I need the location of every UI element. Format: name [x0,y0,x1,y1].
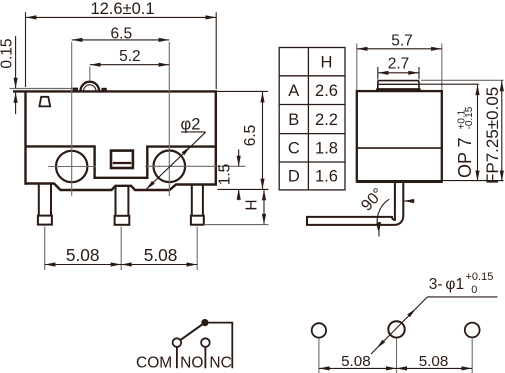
dimension 5.08 / 5.08 front [45,264,198,266]
svg-text:5.08: 5.08 [66,245,100,265]
OP reference line [420,83,479,85]
NC wire [205,323,232,369]
svg-text:2.2: 2.2 [315,111,338,129]
centerline right hole horizontal (1.5 ext) [145,165,246,167]
dimension 1.5 right [238,150,240,167]
svg-text:2.7: 2.7 [388,56,410,73]
small block right of hump [101,88,106,92]
COM terminal circle [173,338,182,347]
FP reference line [421,79,504,81]
plunger hump (front view) [81,82,100,91]
svg-text:5.08: 5.08 [144,245,178,265]
dimension 5.2 [90,64,170,66]
dimension OP 7 [477,84,479,181]
svg-text:NC: NC [209,355,231,372]
svg-text:φ2: φ2 [181,115,201,133]
svg-text:H: H [244,199,261,210]
svg-text:OP 7: OP 7 [455,137,475,178]
svg-text:0.15: 0.15 [0,39,16,69]
hole extension lines [318,338,320,373]
dimension 0.15 left [15,36,17,88]
table grid [279,48,345,190]
NO terminal circle [201,338,210,347]
table text [288,53,338,185]
left pin [38,184,52,225]
bottom pin extension lines [44,227,46,271]
step / channel line inside body [26,146,216,177]
lever (bent pin) [307,182,403,225]
bottom reference line right [443,180,504,182]
svg-text:A: A [288,82,299,100]
button flange [376,89,421,91]
svg-text:2.6: 2.6 [315,82,338,100]
svg-text:5.08: 5.08 [419,353,449,370]
svg-text:D: D [288,168,300,186]
dimension 5.7 [356,44,358,91]
window detail center [111,151,133,168]
dimension 12.6±0.1 [26,12,217,89]
svg-text:6.5: 6.5 [111,25,133,42]
svg-text:+0.15: +0.15 [466,271,494,283]
cover seam line (0.15 offset) [10,88,74,90]
svg-text:φ1: φ1 [445,276,464,293]
left mounting hole [56,151,87,182]
small block left of hump [73,88,78,92]
hole left [312,323,326,337]
90 degree arc [377,199,389,231]
side view seam line [357,147,442,149]
svg-text:12.6±0.1: 12.6±0.1 [90,0,154,18]
svg-text:0: 0 [471,284,477,296]
dimension 6.5 right vertical [262,92,264,190]
svg-text:NO: NO [180,355,203,372]
svg-text:1.5: 1.5 [217,164,234,186]
COM lead [176,347,178,368]
centerline right hole vertical (6.5/5.2 ext) [168,42,170,196]
dimension 5.08 / 5.08 bottom right [319,367,472,369]
hole middle [388,321,404,337]
svg-text:5.7: 5.7 [391,32,413,49]
centerline left hole vertical (6.5 ext) [71,42,73,196]
svg-text:1.8: 1.8 [315,140,338,158]
switch arm [180,323,205,341]
svg-text:6.5: 6.5 [242,125,259,147]
NO lead [204,347,206,368]
dimension 2.7 [377,67,379,80]
right mounting hole [154,151,186,183]
front view body outline [13,91,217,191]
svg-text:FP7.25±0.05: FP7.25±0.05 [483,87,502,184]
svg-text:COM: COM [136,355,172,372]
centerline left hole horizontal [48,166,96,168]
svg-text:1.6: 1.6 [315,168,338,186]
right side extension lines [217,90,268,92]
svg-text:H: H [321,53,333,71]
middle pin [115,186,130,225]
trapezoid detail top-left [39,97,50,107]
svg-text:3-: 3- [429,276,443,293]
svg-text:5.08: 5.08 [341,353,371,370]
svg-text:-0.15: -0.15 [464,106,475,129]
svg-text:B: B [288,111,299,129]
hole right [465,323,480,338]
right pin [191,185,204,225]
side view button [378,81,419,90]
common contact dot [201,319,208,326]
svg-text:5.2: 5.2 [119,48,141,65]
svg-text:C: C [288,140,300,158]
dimension 6.5 top [72,39,170,41]
side view body [357,91,442,181]
dimension H right [263,190,265,225]
dimension FP 7.25±0.05 [501,81,503,182]
